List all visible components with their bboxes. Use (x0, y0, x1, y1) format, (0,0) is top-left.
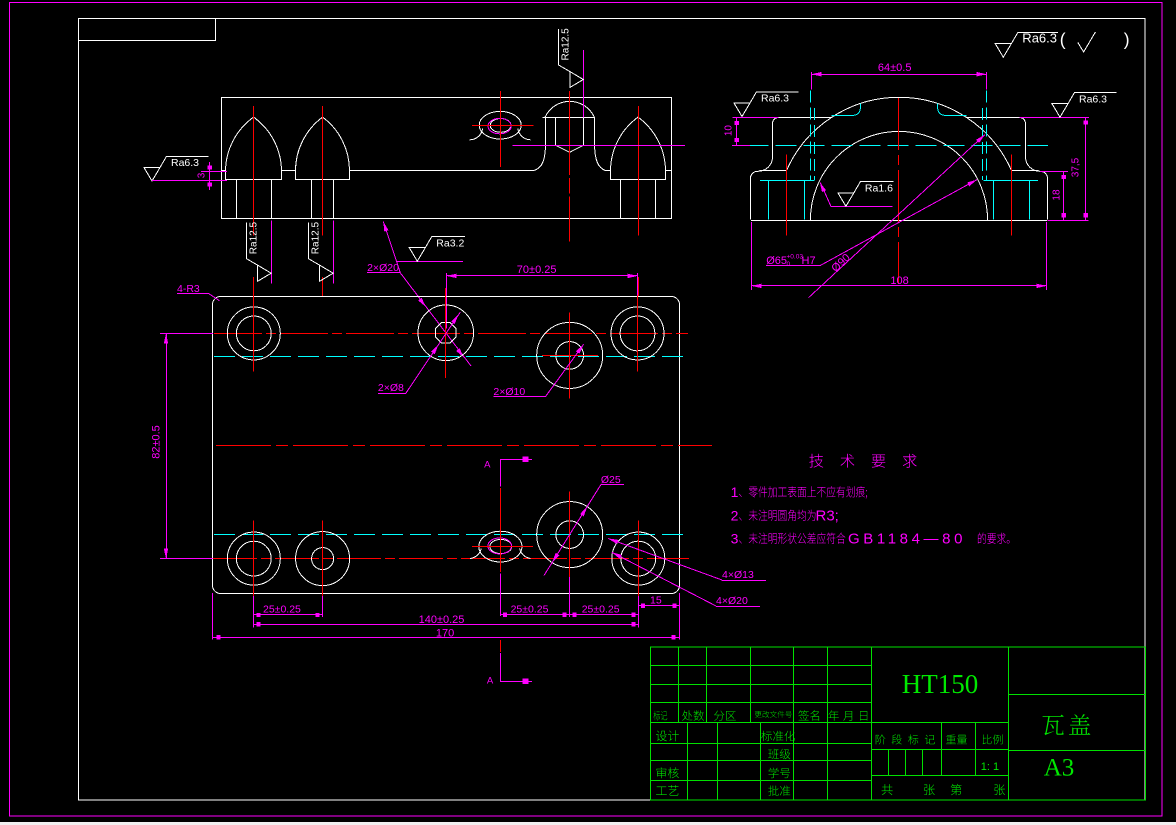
svg-text:A: A (487, 676, 494, 687)
dimension 108 (751, 222, 753, 290)
svg-text:25±0.25: 25±0.25 (511, 603, 549, 615)
dimension 170 (213, 637, 680, 639)
side view right flange profile (966, 118, 1047, 220)
svg-text:Ra1.6: Ra1.6 (865, 183, 893, 195)
dimension 70+-0.25 (446, 273, 448, 328)
svg-text:1: 1: 1: 1 (981, 761, 999, 773)
svg-text:10: 10 (724, 125, 735, 137)
svg-text:25±0.25: 25±0.25 (263, 603, 301, 615)
hidden line long cyan (747, 145, 1048, 147)
plan view outline (213, 297, 680, 594)
hidden bolt hole right (1029, 181, 1031, 220)
hidden slot right (938, 103, 967, 115)
dimension 37.5 (1020, 117, 1090, 119)
plan view top row centerline red (214, 333, 688, 335)
title block designer labels (656, 730, 679, 741)
svg-text:A: A (484, 460, 491, 471)
svg-text:): ) (1124, 30, 1130, 50)
hidden slot left (832, 103, 861, 115)
dimension 15 (638, 605, 679, 607)
svg-text:Ra6.3: Ra6.3 (171, 157, 199, 169)
Ra12.5 top symbol (559, 28, 584, 88)
hole B top 2xD8 (418, 305, 474, 361)
stud dome 2 with stem (295, 117, 349, 179)
Ra6.3 right of side view (1052, 93, 1117, 118)
svg-text:2: 2 (731, 508, 739, 524)
plan view bottom row centerline red (213, 558, 689, 560)
step lines at 18 (760, 170, 787, 172)
svg-text:64±0.5: 64±0.5 (878, 62, 912, 74)
oval slot plan view (479, 531, 522, 562)
plan view hidden line bottom cyan (214, 534, 688, 536)
Ra12.5 symbol left (247, 222, 272, 282)
Ra1.6 with leader (831, 206, 892, 208)
title block row labels (653, 711, 667, 721)
svg-text:170: 170 (436, 627, 454, 639)
svg-text:4×Ø13: 4×Ø13 (722, 569, 754, 581)
svg-text:4×Ø20: 4×Ø20 (716, 595, 748, 607)
dimension 25+-0.25 mid (500, 614, 569, 616)
dimension 82+-0.5 (160, 333, 213, 335)
side view center line red (898, 98, 900, 284)
stud dome 1 with stem (226, 117, 282, 179)
oval extension line (500, 577, 502, 616)
plan bottom extension lines (253, 596, 255, 628)
outer arc D90 (786, 97, 1011, 171)
svg-text:140±0.25: 140±0.25 (419, 614, 465, 626)
Ra3.2 symbol with leader (397, 261, 463, 263)
section mark A bottom (500, 653, 532, 682)
svg-text:Ra12.5: Ra12.5 (248, 222, 259, 255)
svg-text:25±0.25: 25±0.25 (582, 603, 620, 615)
section mark A top (500, 459, 532, 486)
svg-text:Ra6.3: Ra6.3 (1079, 93, 1107, 105)
hole A top-left (227, 307, 280, 360)
technical requirements title (809, 454, 916, 468)
oval slot wings (470, 549, 530, 559)
svg-text:0: 0 (787, 261, 791, 268)
boss bottom D25 (537, 502, 603, 568)
svg-text:3: 3 (197, 172, 208, 178)
svg-text:HT150: HT150 (902, 669, 979, 699)
top-left accessory block (79, 19, 216, 41)
title block stage mark labels (876, 734, 935, 744)
svg-text:70±0.25: 70±0.25 (517, 264, 557, 276)
svg-text:Ra3.2: Ra3.2 (436, 237, 464, 249)
svg-text:18: 18 (1052, 189, 1063, 201)
front view outline (222, 98, 672, 219)
boss top 2xD10 (537, 322, 603, 388)
oval slot magenta ellipse (488, 538, 512, 554)
oval boss front view (479, 111, 521, 139)
dimension 25+-0.25 right (570, 614, 639, 616)
hole E bottom-left (227, 532, 280, 585)
inner arc D65 bore (810, 131, 987, 220)
dimension 25+-0.25 left (254, 614, 323, 616)
dimension 18 (1040, 171, 1068, 173)
svg-text:108: 108 (890, 275, 908, 287)
svg-text:82±0.5: 82±0.5 (151, 425, 163, 459)
title block border (650, 647, 1145, 800)
svg-text:(: ( (1060, 30, 1066, 50)
title block grid (650, 665, 871, 667)
stud dome 3 with stem (610, 117, 665, 179)
top right roughness note (995, 30, 1058, 57)
part name Wa Gai (1043, 714, 1091, 735)
section line A-A (500, 459, 502, 486)
svg-text:R3;: R3; (816, 508, 839, 525)
oval boss wing fillets (470, 129, 531, 140)
Ra12.5 stem extension lines (271, 220, 273, 283)
Ra12.5 symbol right (309, 222, 334, 282)
plan view middle centerline red (216, 445, 712, 447)
front view red centerlines (253, 106, 255, 236)
svg-text:Ra12.5: Ra12.5 (561, 28, 572, 61)
dimension 3 left (201, 171, 227, 173)
hole D top-right (611, 307, 664, 360)
dimension 140+-0.25 (254, 624, 639, 626)
hole F bottom 2xD8 (296, 532, 350, 586)
svg-text:37,5: 37,5 (1071, 157, 1082, 177)
svg-text:Ra6.3: Ra6.3 (761, 93, 789, 105)
svg-text:Ra6.3: Ra6.3 (1022, 30, 1057, 45)
plan view hidden line top cyan (214, 356, 688, 358)
oval slot crosshair (472, 546, 533, 548)
svg-text:3: 3 (731, 531, 739, 547)
magenta surface extension line at hex (583, 50, 585, 117)
side view left flange profile (750, 118, 831, 220)
svg-text:Ra12.5: Ra12.5 (310, 222, 321, 255)
hidden slot side lines dashed (810, 90, 812, 180)
svg-text:15: 15 (650, 595, 662, 607)
Ra6.3 symbol left of front view (144, 156, 209, 181)
bolt hole centerlines red (786, 155, 788, 236)
Ra6.3 left of side view (734, 92, 799, 117)
svg-text:1: 1 (731, 484, 739, 500)
side view baseline (751, 220, 1047, 222)
hidden bolt hole left (768, 181, 770, 220)
svg-text:A3: A3 (1044, 755, 1075, 782)
hole H bottom-right (612, 532, 665, 585)
hex nut and bell front view (545, 101, 594, 117)
label D90 with leader (809, 135, 985, 298)
front view interior surface line (222, 170, 226, 172)
dimension 10 (732, 117, 778, 119)
bottom window edge strip (0, 822, 1176, 825)
dimension 64+-0.5 (811, 72, 813, 90)
oval boss magenta ellipse (488, 118, 511, 133)
svg-text:2×Ø8: 2×Ø8 (378, 382, 404, 394)
svg-text:GB1184—80: GB1184—80 (848, 531, 966, 548)
